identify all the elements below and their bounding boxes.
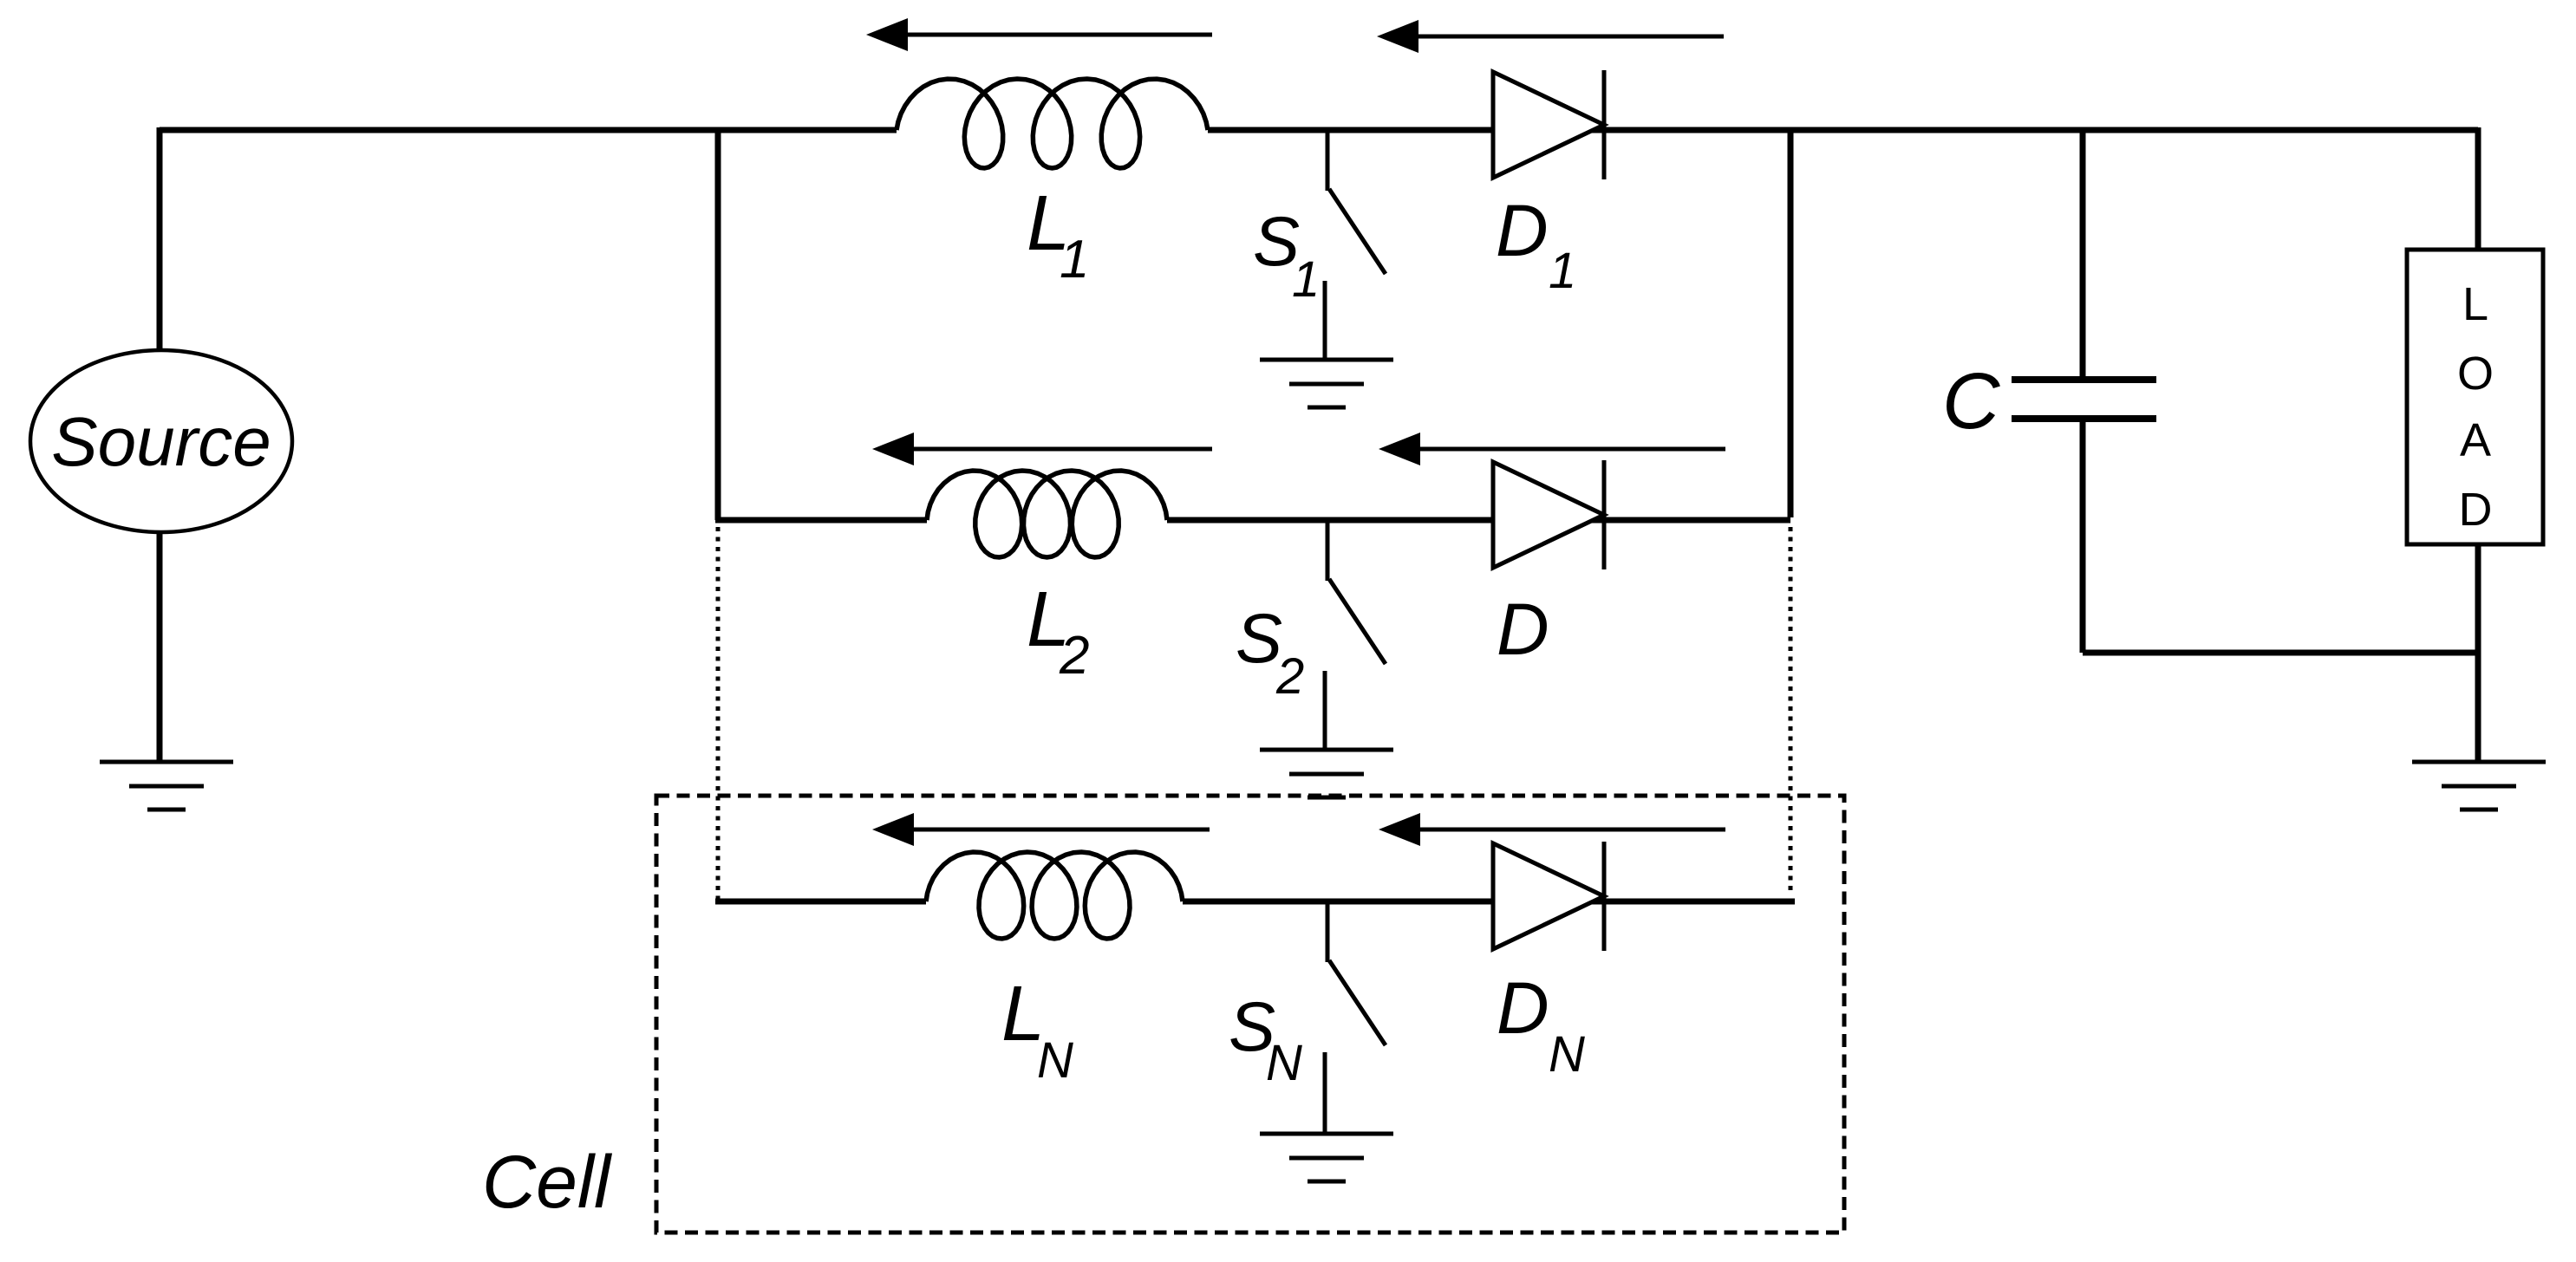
svg-text:L: L — [2462, 278, 2488, 330]
svg-text:N: N — [1549, 1026, 1585, 1083]
svg-text:D: D — [1497, 967, 1549, 1049]
svg-text:1: 1 — [1060, 230, 1089, 289]
svg-text:Cell: Cell — [482, 1141, 613, 1224]
svg-text:S: S — [1236, 600, 1282, 678]
svg-text:2: 2 — [1059, 626, 1089, 686]
svg-text:2: 2 — [1275, 648, 1304, 705]
svg-text:Source: Source — [51, 403, 271, 480]
svg-text:D: D — [2459, 484, 2493, 536]
svg-text:N: N — [1266, 1035, 1302, 1091]
svg-text:1: 1 — [1549, 243, 1576, 299]
svg-text:D: D — [1497, 589, 1549, 670]
svg-text:O: O — [2457, 348, 2494, 400]
svg-text:A: A — [2460, 414, 2491, 466]
svg-text:N: N — [1037, 1032, 1073, 1089]
svg-text:C: C — [1942, 357, 2000, 446]
svg-text:D: D — [1496, 190, 1549, 271]
svg-text:1: 1 — [1292, 251, 1320, 308]
